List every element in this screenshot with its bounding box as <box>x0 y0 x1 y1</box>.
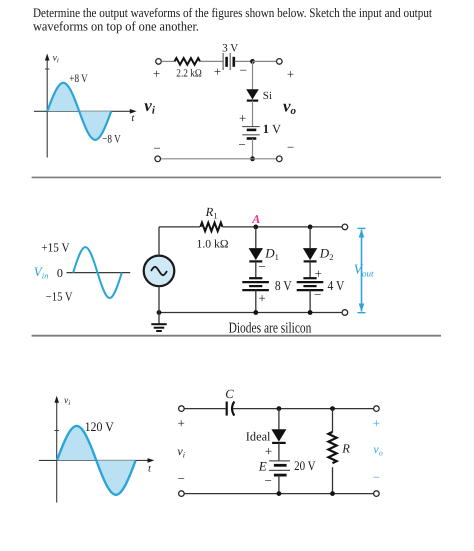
input terminal bottom-left <box>155 156 161 162</box>
node: top junction <box>250 59 255 64</box>
wire: source top up <box>158 227 160 256</box>
separator line 1 <box>32 176 441 178</box>
bottom wire <box>161 158 277 160</box>
input waveform graph 1: vertical axis <box>45 54 50 158</box>
output terminal top-right <box>277 59 283 65</box>
svg-text:+: + <box>287 67 294 82</box>
node: R branch bottom <box>330 491 335 496</box>
input waveform graph 1: time axis <box>34 109 137 114</box>
battery 3V <box>223 53 234 70</box>
svg-text:vo: vo <box>373 442 382 457</box>
resistor 2.2 kOhm (zigzag) <box>175 58 200 65</box>
svg-text:Si: Si <box>263 90 272 102</box>
svg-text:−: − <box>258 259 265 274</box>
node: D2 top <box>308 225 313 230</box>
svg-text:Diodes are silicon: Diodes are silicon <box>229 321 312 337</box>
svg-text:+8 V: +8 V <box>69 73 88 85</box>
output terminal bottom-right (section 2) <box>342 310 348 316</box>
svg-text:+: + <box>153 66 160 81</box>
node: D2 bottom <box>308 310 313 315</box>
capacitor C <box>227 402 235 416</box>
wire: battery 4V to bottom <box>309 290 311 312</box>
wire: resistor to battery 3V <box>200 60 223 62</box>
svg-text:−: − <box>265 473 272 488</box>
svg-text:D1: D1 <box>264 246 279 263</box>
bottom wire (section 3) <box>184 493 373 495</box>
diode (ideal) <box>271 429 286 443</box>
svg-text:E: E <box>258 459 267 474</box>
wire: node to output terminal <box>253 60 277 62</box>
svg-text:1 V: 1 V <box>263 122 281 136</box>
wire: resistor R to bottom <box>332 467 334 493</box>
svg-text:−: − <box>178 471 185 486</box>
waveform 3 time axis <box>39 458 154 463</box>
battery 1V <box>242 127 259 139</box>
circuit 3: input terminal top-left <box>179 406 185 412</box>
svg-text:0: 0 <box>57 266 63 280</box>
svg-text:D2: D2 <box>319 246 334 263</box>
svg-text:waveforms on top of one anothe: waveforms on top of one another. <box>33 19 199 34</box>
svg-text:C: C <box>225 387 234 401</box>
svg-text:8 V: 8 V <box>275 278 292 293</box>
wire: source to ground <box>158 286 160 323</box>
wire: battery to node <box>235 60 253 62</box>
svg-text:t: t <box>131 113 135 124</box>
svg-text:+: + <box>373 416 380 431</box>
output terminal bottom-right (section 3) <box>374 491 380 497</box>
wire: terminal to capacitor <box>184 408 225 410</box>
wire: battery 1V to bottom node <box>252 139 254 159</box>
svg-text:+: + <box>239 111 246 126</box>
wire: battery 8V to bottom <box>255 290 257 312</box>
ac source V_in <box>144 256 175 287</box>
svg-text:−: − <box>238 137 245 152</box>
svg-text:+: + <box>258 291 265 306</box>
battery 4V <box>297 278 324 290</box>
resistor R (vertical zigzag) <box>328 432 336 463</box>
node: bottom junction <box>250 156 255 161</box>
wire: diode to battery E <box>278 443 280 461</box>
svg-text:−8 V: −8 V <box>102 133 121 145</box>
resistor R1 (zigzag) <box>200 223 222 232</box>
svg-text:120 V: 120 V <box>85 419 115 434</box>
node: R top <box>330 406 335 411</box>
battery E <box>269 461 290 475</box>
wire: diode to battery 1V <box>252 101 254 127</box>
node A dot <box>253 225 258 230</box>
svg-text:Ideal: Ideal <box>246 430 271 444</box>
sine wave v_i = 120 V (filled) <box>57 426 136 495</box>
wire: top-left horizontal to resistor <box>159 226 200 228</box>
svg-text:3 V: 3 V <box>222 43 238 55</box>
wire: node A down to D1 <box>255 227 257 248</box>
input terminal bottom-left (section 3) <box>179 491 185 497</box>
svg-text:Vin: Vin <box>34 264 49 281</box>
svg-text:−15 V: −15 V <box>46 289 73 303</box>
diode D1 <box>249 248 263 261</box>
wire: D1 to battery 8V <box>255 261 257 278</box>
diode D2 <box>303 248 317 261</box>
svg-text:2.2 kΩ: 2.2 kΩ <box>176 68 202 80</box>
node: source bottom <box>157 310 162 315</box>
svg-text:Vout: Vout <box>354 262 374 279</box>
svg-text:vi: vi <box>144 96 156 116</box>
node: diode branch bottom <box>277 491 282 496</box>
svg-text:+: + <box>265 444 272 459</box>
V_out measurement arrow <box>358 228 366 312</box>
wire: R node down <box>332 409 334 432</box>
svg-text:vo: vo <box>283 96 297 116</box>
svg-text:+: + <box>214 64 221 79</box>
output terminal top-right (section 2) <box>342 224 348 230</box>
svg-text:20 V: 20 V <box>294 458 316 473</box>
wire: capacitor to top-right terminal <box>233 408 374 410</box>
output terminal top-right (section 3) <box>374 406 380 412</box>
svg-text:4 V: 4 V <box>328 278 345 293</box>
svg-text:R: R <box>341 441 350 455</box>
circuit 1: input terminal top-left <box>156 59 162 65</box>
waveform 3 vertical axis <box>54 396 59 503</box>
wire: battery E to bottom <box>278 475 280 494</box>
svg-text:vi: vi <box>53 54 59 65</box>
output terminal bottom-right <box>277 156 283 162</box>
svg-text:−: − <box>314 287 321 302</box>
svg-text:−: − <box>153 140 160 155</box>
wire: D2 to battery 4V <box>309 261 311 278</box>
svg-text:A: A <box>251 212 260 226</box>
node: D1 bottom <box>253 310 258 315</box>
sine wave V_in 15 V <box>73 247 122 298</box>
wire: D2 node down <box>309 227 311 248</box>
svg-text:−: − <box>240 63 247 78</box>
sine wave v_i = 8 V (filled) <box>47 83 111 140</box>
svg-text:vi: vi <box>64 396 70 407</box>
separator line 2 <box>32 335 441 337</box>
svg-text:+: + <box>178 416 185 431</box>
ground <box>151 324 166 331</box>
wire: node down to diode <box>278 409 280 430</box>
wire: terminal to resistor <box>161 60 174 62</box>
wire: resistor to output terminal (top) <box>223 226 343 228</box>
waveform 2 axis <box>67 272 131 274</box>
svg-text:1.0 kΩ: 1.0 kΩ <box>197 239 229 251</box>
title text <box>33 5 432 34</box>
diode Si <box>246 89 259 100</box>
bottom wire (section 2) <box>159 312 342 314</box>
svg-text:R1: R1 <box>205 205 218 221</box>
svg-text:−: − <box>373 469 380 484</box>
node: diode top <box>277 406 282 411</box>
svg-text:−: − <box>287 139 294 154</box>
svg-text:t: t <box>148 463 152 474</box>
wire: node down to diode <box>252 61 254 89</box>
svg-text:+15 V: +15 V <box>41 241 69 255</box>
battery 8V <box>242 278 269 290</box>
svg-text:vi: vi <box>177 444 185 459</box>
